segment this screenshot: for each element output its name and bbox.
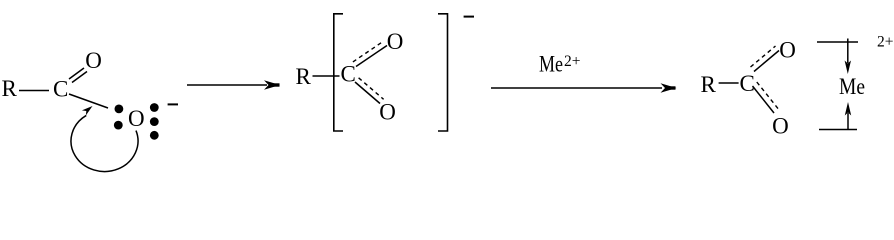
svg-text:Me: Me — [539, 52, 563, 77]
svg-text:R: R — [296, 64, 312, 89]
svg-text:C: C — [53, 77, 68, 102]
coordination down arrow head — [845, 61, 851, 75]
reaction arrow 2 head stub — [668, 86, 676, 89]
right square bracket — [438, 14, 448, 131]
wire: partial double bond C-O upper solid (right structure) — [754, 51, 779, 72]
svg-text:2+: 2+ — [564, 53, 581, 70]
reaction arrow 2 shaft — [491, 87, 662, 89]
wire: double bond C=O line 2 (left structure) — [72, 72, 87, 83]
curved electron-pushing arrow arc — [71, 115, 138, 171]
svg-text:2+: 2+ — [877, 34, 894, 51]
reaction arrow 1 shaft — [187, 84, 267, 86]
coordination down arrow shaft — [847, 42, 849, 63]
svg-text:R: R — [2, 76, 18, 101]
wire: partial double bond C-O lower solid (right structure) — [753, 86, 775, 113]
wire: double bond C=O line 1 (left structure) — [69, 68, 84, 79]
reaction arrow 1 head stub — [272, 83, 280, 86]
reaction arrow 2 head — [661, 83, 677, 93]
lone pair dot right-middle of O — [150, 117, 159, 126]
svg-text:O: O — [128, 106, 145, 131]
coordination top tick — [847, 39, 849, 43]
wire: partial double bond C-O lower dashed (middle structure) — [359, 78, 384, 100]
wire: single bond C-O (left structure) — [69, 94, 108, 108]
wire: partial double bond C-O lower dashed (right structure) — [757, 82, 779, 109]
wire: partial double bond C-O upper dashed (middle structure) — [353, 41, 384, 62]
negative charge minus sign (middle structure, outside bracket) — [464, 16, 474, 18]
reaction arrow 1 head — [264, 80, 280, 90]
wire: partial double bond C-O upper dashed (right structure) — [751, 46, 776, 67]
coordination up arrow head — [845, 102, 851, 116]
coordination up arrow shaft — [847, 113, 849, 130]
svg-text:O: O — [779, 37, 796, 62]
wire: single bond R-C (right structure) — [719, 82, 739, 84]
coordination top line — [817, 41, 858, 43]
svg-text:O: O — [379, 99, 396, 124]
svg-text:C: C — [740, 71, 755, 96]
wire: single bond R-C (middle structure) — [313, 75, 340, 77]
wire: single bond R-C (left structure) — [19, 90, 49, 92]
lone pair dot right-top of O — [150, 103, 159, 112]
wire: partial double bond C-O upper solid (middle structure) — [356, 46, 387, 67]
svg-text:O: O — [772, 113, 789, 138]
curved arrow head — [82, 106, 93, 115]
svg-text:O: O — [387, 29, 404, 54]
svg-text:C: C — [341, 61, 356, 86]
svg-text:R: R — [701, 72, 717, 97]
svg-text:Me: Me — [839, 74, 865, 99]
svg-text:O: O — [85, 48, 102, 73]
negative charge minus sign (left structure) — [168, 103, 178, 105]
coordination bottom line — [819, 129, 857, 131]
lone pair dot upper-left of O — [115, 105, 124, 114]
left square bracket — [334, 14, 343, 131]
wire: partial double bond C-O lower solid (middle structure) — [355, 82, 380, 104]
lone pair dot lower-left of O — [114, 121, 123, 130]
lone pair dot right-bottom of O — [150, 131, 159, 140]
